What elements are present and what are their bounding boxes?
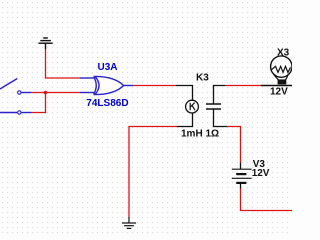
op-amp U3A xor gate leads: [80, 78, 133, 93]
wire battery bottom to right edge: [241, 189, 293, 211]
wire contact to lamp: [225, 85, 261, 87]
node junction dot: [44, 91, 48, 95]
wire coil bottom to ground: [129, 127, 177, 218]
wire node dot down to switch S2: [32, 93, 46, 113]
battery V3 lead bottom: [240, 183, 242, 189]
svg-text:1mH 1Ω: 1mH 1Ω: [181, 129, 219, 140]
relay coil K letter: [190, 103, 195, 111]
svg-text:U3A: U3A: [98, 62, 118, 73]
relay coil K3 lead top: [176, 86, 193, 101]
lamp X3 funnel: [274, 74, 279, 79]
lamp X3 base: [278, 79, 287, 84]
relay contact lead bottom: [214, 110, 228, 127]
ground GND2 (bottom): [122, 217, 136, 228]
svg-text:X3: X3: [277, 47, 290, 58]
wire contact bottom to battery top: [227, 127, 241, 163]
lamp X3 lead: [261, 85, 292, 87]
relay contact K3 lead top: [214, 86, 226, 104]
lamp X3 filament: [271, 66, 290, 72]
relay coil K3 lead bottom: [177, 113, 193, 127]
wire gate output to relay coil: [133, 85, 176, 87]
switch S1 (top, open): [0, 79, 31, 95]
lamp X3 bulb: [271, 56, 292, 77]
svg-text:74LS86D: 74LS86D: [86, 98, 128, 109]
wire ground to node corner: [46, 49, 81, 78]
battery V3 lead top: [240, 163, 242, 170]
battery V3 plates: [232, 169, 252, 183]
ground GND1 (top, flipped): [39, 38, 53, 49]
relay contact plates: [206, 104, 221, 109]
switch S2 (bottom, closed): [0, 111, 32, 114]
relay coil K3 circle: [186, 100, 199, 113]
svg-text:12V: 12V: [252, 168, 270, 179]
op-amp U3A xor gate body: [94, 76, 124, 94]
wire switch S1 to gate input B: [31, 92, 80, 94]
svg-text:K3: K3: [196, 72, 209, 83]
svg-text:12V: 12V: [270, 86, 288, 97]
